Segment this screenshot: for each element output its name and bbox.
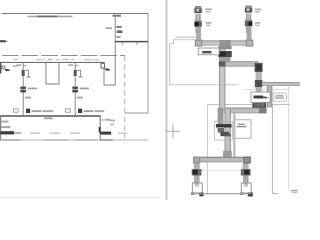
label box C text 2 — [237, 126, 247, 128]
scale text — [291, 190, 298, 192]
label box A arrow — [263, 97, 268, 99]
meter M1 bar b — [20, 90, 26, 93]
sheet top border — [2, 13, 149, 15]
pump P-1 tag text — [205, 8, 212, 10]
riser A pipe b — [256, 87, 262, 99]
main switchboard left end — [0, 62, 1, 74]
bottom region line dark d — [100, 139, 113, 141]
utility service bar — [115, 41, 148, 43]
pipe to right edge — [262, 82, 300, 86]
riser valve — [218, 51, 232, 57]
thin drop pipe — [233, 114, 235, 157]
service arrow — [105, 68, 110, 71]
label box B text 2 — [275, 97, 284, 99]
meter M1 text — [28, 88, 37, 90]
right drop text 2 — [110, 120, 115, 122]
grid crosshair — [166, 124, 181, 138]
incoming box — [2, 66, 5, 69]
unit U2 stub — [244, 184, 248, 187]
unit U2 pipe b — [243, 176, 249, 184]
header right elbow — [246, 40, 254, 47]
bottom right elbow — [243, 157, 250, 164]
crop region lavender top — [208, 104, 290, 106]
unit U2 valve — [241, 169, 251, 176]
unit U1 pipe b — [194, 176, 200, 184]
unit U1 valve dark — [193, 170, 198, 175]
header left elbow — [195, 40, 203, 47]
meter M2 text — [80, 88, 89, 90]
faint sheet bottom — [0, 197, 160, 199]
disconnect 1 — [26, 109, 30, 113]
unit U2 foot left — [240, 192, 243, 195]
label box RP-1 text — [202, 51, 211, 53]
header right elbow inner — [247, 41, 252, 46]
pump P-2 tag text — [255, 9, 261, 11]
pump P-2 tag text 2 — [255, 11, 260, 13]
spare loop U1 — [46, 62, 59, 84]
incoming feeder arrow — [5, 69, 11, 71]
label box B text — [275, 95, 283, 97]
bottom region line dark a — [0, 139, 20, 141]
disconnect 2 — [78, 109, 82, 113]
title text — [28, 15, 73, 17]
unit U2 foot right — [248, 193, 253, 197]
unit U2 body — [241, 183, 251, 193]
instrument outline box — [215, 122, 233, 141]
drop 2 tick — [75, 65, 79, 67]
meter M2 bar a — [72, 87, 78, 89]
dashed boundary vertical — [124, 56, 126, 138]
label box A text — [254, 96, 264, 99]
unit U2 drop pipe — [243, 164, 249, 170]
disconnect 2 label b — [94, 110, 104, 112]
units faint connect line — [202, 169, 241, 171]
disconnect 2 label — [84, 110, 94, 112]
breaker CB2 — [74, 70, 77, 76]
crop region red right — [271, 105, 273, 194]
bottom right elbow inner — [245, 158, 250, 163]
units base line — [193, 193, 252, 195]
service bar tick 1 — [121, 42, 123, 45]
switchboard right drop — [99, 116, 101, 140]
viewport notch line — [125, 112, 148, 114]
switchboard name bold right — [100, 132, 111, 135]
switchboard label row 2 — [1, 126, 10, 128]
scale text 2 — [292, 192, 297, 193]
bottom header pipe — [193, 157, 251, 163]
ground branch 2 — [75, 70, 80, 76]
feeder drop 2 wire — [74, 62, 76, 115]
pump P-2 — [245, 6, 253, 41]
utility CT symbol — [117, 30, 123, 33]
pump P-2 valve text 2 — [255, 25, 260, 27]
stepped fitting c — [225, 134, 230, 137]
switchboard left edge — [0, 116, 2, 140]
branch elbow — [219, 61, 226, 66]
unit U2 valve dark — [244, 170, 249, 175]
bottom dashes row — [30, 132, 127, 134]
label box RP-1 — [198, 48, 219, 55]
switchboard text under bus — [44, 117, 53, 119]
riser valve dark — [219, 52, 226, 56]
crop region red foot — [272, 192, 278, 194]
pump P-1 — [194, 6, 202, 41]
riser pipe lower — [225, 109, 231, 158]
switchboard label row 1 — [1, 121, 8, 123]
utility note text 2 — [116, 26, 121, 28]
crop region red faint — [288, 86, 290, 190]
feeder drop 1 wire — [22, 62, 24, 115]
riser fitting below — [218, 108, 224, 125]
unit U1 valve — [192, 169, 202, 176]
right drop text 3 — [110, 124, 114, 126]
utility note text 1 — [106, 27, 112, 29]
stepped fitting a — [218, 128, 224, 133]
riser A base inner — [254, 101, 264, 107]
sensor bar — [216, 124, 232, 127]
meter M1 bar a — [20, 87, 26, 89]
lower bus (switchboard) — [0, 115, 101, 117]
branch pipe to riser A — [225, 61, 258, 66]
note top-left — [0, 40, 6, 42]
label box A — [251, 92, 270, 103]
pump P-1 valve text — [206, 22, 211, 24]
title text dark part — [38, 15, 58, 17]
header tee — [220, 40, 231, 46]
bus label dashes — [13, 59, 99, 60]
bottom left elbow inner — [194, 158, 199, 163]
utility leader label — [113, 15, 122, 17]
riser pipe upper — [219, 46, 225, 114]
riser flange — [220, 57, 231, 62]
utility note text 3 — [116, 36, 120, 38]
pump P-2 valve text — [255, 22, 260, 24]
stepped fitting b — [220, 132, 229, 136]
utility riser wire — [104, 17, 115, 85]
label box C — [234, 120, 251, 138]
drop 1 text — [16, 64, 21, 66]
note tail — [6, 41, 8, 42]
CT box 2 — [65, 109, 70, 112]
drop 1 lower text — [25, 97, 31, 99]
pump P-1 valve text 2 — [206, 25, 210, 27]
label box C text — [238, 124, 245, 126]
scope box blue top line a — [176, 36, 197, 38]
bottom region line dark b — [45, 139, 67, 141]
ground branch 1 — [23, 70, 28, 76]
crop region lavender left — [207, 105, 209, 195]
bottom region line dark c — [75, 139, 97, 141]
unit U1 stub — [195, 184, 199, 187]
CT box 1 — [13, 109, 18, 112]
scope box blue lower segment — [244, 89, 290, 91]
scope box blue path — [170, 40, 238, 85]
drop 2 lower text — [77, 97, 83, 99]
service bar tick 2 — [136, 42, 138, 45]
switchboard name bold left — [0, 131, 14, 134]
return pipe horizontal — [225, 108, 267, 114]
unit U1 body — [192, 183, 202, 193]
drop 2 text — [68, 64, 73, 66]
service disconnect box — [101, 64, 105, 69]
riser tee fitting — [218, 46, 231, 49]
incoming text — [13, 65, 17, 67]
drop 1 tick — [23, 65, 27, 67]
riser A pipe a — [256, 72, 262, 80]
label box B — [273, 93, 286, 101]
dashed boundary horizontal — [2, 55, 125, 57]
main bus — [0, 61, 104, 63]
meter M2 bar b — [72, 90, 78, 93]
pump P-1 tag text 2 — [205, 11, 210, 13]
switchboard name tail — [14, 132, 22, 134]
breaker CB1 — [22, 70, 25, 76]
return pipe right dark end — [259, 108, 267, 114]
panel divider — [166, 0, 168, 200]
riser A base — [252, 100, 266, 109]
right drop tick — [100, 119, 104, 121]
switch blade — [99, 127, 101, 133]
riser A elbow — [255, 63, 263, 72]
right drop text 1 — [105, 119, 111, 121]
unit U1 foot right — [199, 193, 203, 197]
header left elbow inner — [196, 41, 201, 46]
unit U1 foot left — [191, 192, 194, 195]
disconnect 1 label b — [42, 110, 53, 112]
riser B pipe — [267, 86, 273, 108]
ground foot 2 — [79, 76, 83, 78]
sheet right border — [147, 14, 149, 114]
unit U1 drop pipe — [194, 164, 200, 170]
riser A valve — [255, 80, 263, 87]
bottom region line — [0, 139, 148, 141]
ground foot 1 — [27, 76, 31, 78]
bottom left elbow — [193, 157, 200, 164]
riser A elbow inner — [256, 64, 262, 70]
disconnect 1 label — [32, 110, 42, 112]
riser bottom elbow — [223, 151, 232, 158]
header pipe — [202, 40, 253, 45]
